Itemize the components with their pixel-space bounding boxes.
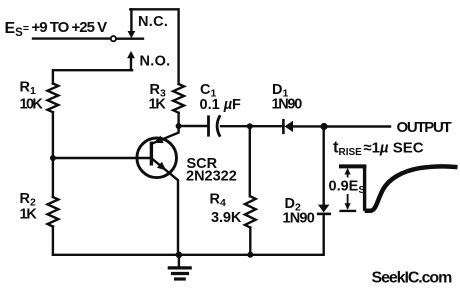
SCR base bar <box>150 143 153 164</box>
SCR anode lead <box>151 126 178 144</box>
waveform amplitude arrow <box>341 168 355 211</box>
switch N.O. contact arm <box>127 51 135 70</box>
wire D2 to bottom rail <box>323 214 325 255</box>
svg-text:10K: 10K <box>20 97 44 113</box>
wire R3 to anode node <box>177 113 179 126</box>
svg-text:2N2322: 2N2322 <box>186 169 237 185</box>
wire node to C1 <box>179 125 208 127</box>
svg-text:N.O.: N.O. <box>140 54 171 70</box>
wire D1 to output node <box>293 125 324 127</box>
node anode junction <box>176 123 182 129</box>
wire R2 leads <box>52 158 54 255</box>
svg-text:SeekIC.com: SeekIC.com <box>372 270 453 287</box>
node R4 top junction <box>247 123 253 129</box>
svg-text:1K: 1K <box>149 97 167 113</box>
resistor R4 <box>245 196 256 227</box>
wire gate <box>53 157 151 159</box>
SCR U1 circle <box>137 138 177 178</box>
svg-text:N.C.: N.C. <box>138 14 168 30</box>
node ground junction <box>176 252 183 259</box>
svg-text:1N90: 1N90 <box>272 97 303 113</box>
wire top to R3 column <box>130 9 178 84</box>
switch pole contact <box>111 36 143 41</box>
svg-text:1N90: 1N90 <box>283 211 315 227</box>
node output junction <box>320 123 327 130</box>
svg-text:1K: 1K <box>20 207 38 223</box>
SCR cathode lead <box>151 158 178 255</box>
diode D1 <box>283 120 293 133</box>
waveform output pulse <box>339 165 458 211</box>
svg-text:tRISE≈1µ SEC: tRISE≈1µ SEC <box>333 139 424 159</box>
wire bottom rail <box>53 254 323 256</box>
wire R1 to gate node <box>52 112 54 158</box>
svg-text:0.1 µF: 0.1 µF <box>200 97 242 113</box>
SCR cathode arrow <box>157 162 166 171</box>
resistor R1 <box>48 84 59 113</box>
wire D2 column top <box>323 127 325 205</box>
svg-text:ES=: ES= <box>5 20 29 39</box>
wire C1 to D1 <box>221 125 283 127</box>
wire R4 leads <box>249 126 252 255</box>
svg-text:+9 TO +25 V: +9 TO +25 V <box>32 19 108 36</box>
SCR anode arrow <box>154 136 164 143</box>
svg-text:OUTPUT: OUTPUT <box>397 119 452 136</box>
wire ES supply <box>33 37 110 39</box>
capacitor C1 <box>209 117 220 136</box>
svg-text:3.9K: 3.9K <box>211 210 242 226</box>
label 0.9 ES <box>328 178 365 197</box>
node gate junction <box>50 155 56 161</box>
node R4 bottom junction <box>247 252 253 258</box>
resistor R2 <box>48 197 59 227</box>
diode D2 <box>318 205 330 214</box>
wire N.O. arm to R1 <box>53 70 132 83</box>
svg-text:R4: R4 <box>210 192 226 210</box>
label ES supply <box>5 19 108 39</box>
wire output <box>324 125 390 127</box>
switch N.C. contact arm <box>128 9 136 38</box>
resistor R3 <box>173 84 184 113</box>
ground <box>169 255 190 279</box>
svg-text:R1: R1 <box>20 80 36 98</box>
